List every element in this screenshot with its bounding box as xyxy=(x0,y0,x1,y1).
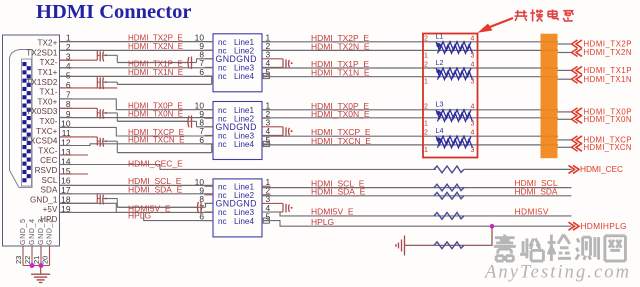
wire HDMI_TXCP bar to off-page xyxy=(558,139,572,141)
svg-text:GND_5: GND_5 xyxy=(20,219,27,245)
wire HDMI_TX1N bar to off-page xyxy=(558,78,572,80)
svg-text:HPLG: HPLG xyxy=(128,210,151,220)
svg-text:HDMI5V: HDMI5V xyxy=(515,206,549,216)
off-page connector HDMI_TX2P xyxy=(572,40,578,48)
wire HDMI_TX2P_E conn pin1 to U1 pin10 xyxy=(60,41,214,43)
annotation text 共模电感 (common-mode choke) xyxy=(517,10,519,16)
svg-text:16: 16 xyxy=(61,175,71,185)
resistor R4 on 5V xyxy=(434,213,464,220)
wire HDMI_TX0P bar to off-page xyxy=(558,111,572,113)
svg-text:20: 20 xyxy=(41,256,50,264)
off-page connector HDMIHPLG xyxy=(569,222,575,230)
svg-text:TX0+: TX0+ xyxy=(38,97,58,106)
svg-text:L2: L2 xyxy=(436,58,444,67)
svg-text:HDMI_TX1N: HDMI_TX1N xyxy=(584,75,632,84)
wire conn pin6 stub xyxy=(60,87,118,89)
svg-text:HDMI_TX2P_E: HDMI_TX2P_E xyxy=(128,33,183,42)
wire HDMI_TX2P bar to off-page xyxy=(558,43,572,45)
wire HDMI_TXCN_E conn pin12 to U2 pin6 xyxy=(60,144,214,146)
svg-text:nc: nc xyxy=(218,72,227,81)
filter IC U1 (TX2/TX1 lines) xyxy=(213,34,262,92)
off-page connector HDMI_TX2N xyxy=(572,49,578,57)
svg-text:GNDGND: GNDGND xyxy=(216,199,257,209)
svg-text:L3: L3 xyxy=(436,100,444,109)
svg-text:3: 3 xyxy=(471,79,475,86)
svg-text:1: 1 xyxy=(424,147,428,154)
wire HDMI_TX2N bar to off-page xyxy=(558,52,572,54)
svg-text:1: 1 xyxy=(424,52,428,59)
svg-text:2: 2 xyxy=(424,62,428,69)
wire HDMI_TX2N_E U-box to choke xyxy=(262,49,558,51)
wire HDMI_TXCP_E conn pin10 jog xyxy=(60,127,214,136)
wire TX2 shield run to U1 GND pin8 xyxy=(117,62,188,64)
svg-text:HDMI_TXCN_E: HDMI_TXCN_E xyxy=(128,136,184,145)
wire HDMI_TX0P_E U-box to choke xyxy=(262,109,558,111)
svg-text:HDMI_TX1P: HDMI_TX1P xyxy=(584,66,632,75)
wire conn pin13 stub xyxy=(60,154,89,156)
wire TX1 shield run xyxy=(117,83,211,85)
svg-text:10: 10 xyxy=(61,118,71,128)
svg-text:HDMI_TX1N_E: HDMI_TX1N_E xyxy=(311,68,370,78)
wire GND rail xyxy=(23,265,50,267)
svg-text:L4: L4 xyxy=(436,126,444,135)
wire conn pin18 stub tie xyxy=(60,202,98,204)
wire HDMI_TX0P_E conn pin7 jog xyxy=(60,99,214,110)
svg-text:2: 2 xyxy=(424,130,428,137)
svg-text:1: 1 xyxy=(424,79,428,86)
off-page connector HDMI_TXCN xyxy=(572,143,578,151)
off-page connector HDMI_TX1N xyxy=(572,75,578,83)
svg-text:HDMI Connector: HDMI Connector xyxy=(36,1,191,23)
capacitor C9 at U3 right pins 3-4 xyxy=(271,202,284,204)
svg-text:TX1+: TX1+ xyxy=(38,68,58,77)
svg-text:TX0-: TX0- xyxy=(40,117,58,126)
svg-text:HDMI_SDA_E: HDMI_SDA_E xyxy=(311,187,366,197)
svg-text:AnyTesting.com: AnyTesting.com xyxy=(483,263,629,283)
svg-text:HDMI_TXCN: HDMI_TXCN xyxy=(584,143,632,152)
svg-text:HDMI_TX2N_E: HDMI_TX2N_E xyxy=(128,42,183,51)
svg-text:3: 3 xyxy=(471,120,475,127)
no-connect square at U2 pin 5 xyxy=(263,141,269,146)
svg-text:GND_1: GND_1 xyxy=(30,195,58,204)
junction dot GND rail 1 xyxy=(30,263,35,268)
svg-text:HDMI_TX0N_E: HDMI_TX0N_E xyxy=(311,109,370,119)
wire HDMI5V U3 to right xyxy=(262,212,572,216)
svg-text:4: 4 xyxy=(471,103,475,110)
svg-text:TX0SD3: TX0SD3 xyxy=(26,107,58,116)
svg-text:3: 3 xyxy=(471,147,475,154)
svg-text:HPLG: HPLG xyxy=(311,217,334,227)
wire HDMI_TX1P bar to off-page xyxy=(558,69,572,71)
wire HDMI_TX0N bar to off-page xyxy=(558,118,572,120)
wire HDMI_SCL U3 to right xyxy=(262,187,572,189)
wire HDMI_TX0N_E conn pin9 to U2 pin9 xyxy=(60,117,214,119)
capacitor C1 (TX2 shield) xyxy=(96,50,98,60)
wire HDMI_CEC_E conn pin14 xyxy=(60,165,437,170)
wire TX0 shield run to U2 GND pin8 xyxy=(117,120,188,122)
svg-text:2: 2 xyxy=(424,103,428,110)
capacitor C7 at U1 right pins 3-4 xyxy=(271,58,284,60)
resistor R5 pulldown xyxy=(434,242,464,249)
watermark text 嘉峪检测网 xyxy=(494,235,626,262)
svg-text:Line4: Line4 xyxy=(234,217,254,226)
svg-text:TXCSD4: TXCSD4 xyxy=(25,137,58,146)
wire HDMI5V_E conn pin18 to U3 pin7 xyxy=(60,203,214,212)
svg-text:11: 11 xyxy=(62,128,71,138)
off-page connector HDMI_CEC xyxy=(569,165,575,173)
capacitor C11 (U3 GND left) xyxy=(117,206,201,208)
wire HDMI_TX2P_E U-box to choke xyxy=(262,41,558,43)
svg-text:4: 4 xyxy=(471,62,475,69)
svg-text:22: 22 xyxy=(23,256,32,264)
svg-text:HDMI5V_E: HDMI5V_E xyxy=(311,207,354,217)
capacitor C4 (TXC shield) xyxy=(96,137,98,146)
wire conn pin3 stub tie xyxy=(60,59,98,61)
capacitor C6 (U2 GND left) xyxy=(117,120,191,122)
svg-text:TX1-: TX1- xyxy=(40,88,58,97)
svg-text:HDMI_TXCN_E: HDMI_TXCN_E xyxy=(311,136,371,146)
svg-text:nc: nc xyxy=(218,140,227,149)
wire HDMI_TX1N_E conn pin5 to U1 pin6 xyxy=(60,75,214,77)
svg-text:HDMI_TX1N_E: HDMI_TX1N_E xyxy=(128,68,183,77)
wire HDMI_SDA_E conn pin17 to U3 pin9 xyxy=(60,193,214,195)
wire HDMI_SCL_E conn pin16 to U3 pin10 xyxy=(60,184,214,186)
svg-text:1: 1 xyxy=(424,120,428,127)
wire 5V shield run to U3 GND pin8 xyxy=(117,206,197,208)
svg-text:SDA: SDA xyxy=(41,186,58,195)
connector J1 pin stubs right side xyxy=(60,41,73,43)
capacitor C10 (GND_1/+5V) xyxy=(96,194,98,204)
resistor R2 on SCL xyxy=(434,184,464,191)
resistor R3 on SDA xyxy=(434,192,464,199)
wire HDMI_TXCN bar to off-page xyxy=(558,146,572,148)
wire conn pin15 stub xyxy=(60,173,89,175)
svg-text:TX2SD1: TX2SD1 xyxy=(26,48,58,57)
svg-text:GNDGND: GNDGND xyxy=(216,54,257,64)
capacitor C8 at U2 right pins 3-4 xyxy=(271,126,284,128)
ground symbol right (rotated) xyxy=(405,244,407,246)
svg-text:TXC+: TXC+ xyxy=(36,127,57,136)
wire TXC shield run xyxy=(117,152,211,154)
svg-text:GND_4: GND_4 xyxy=(29,219,36,245)
svg-text:7: 7 xyxy=(66,90,71,100)
svg-text:HDMI_SDA: HDMI_SDA xyxy=(515,187,558,197)
svg-text:HDMI_TX0N: HDMI_TX0N xyxy=(584,115,632,124)
svg-text:HDMI_CEC_E: HDMI_CEC_E xyxy=(128,159,183,169)
svg-text:CEC: CEC xyxy=(40,156,57,165)
svg-text:GND_3: GND_3 xyxy=(38,219,45,245)
wire HDMI_TX2N_E conn pin2 to U1 pin9 xyxy=(60,49,214,51)
capacitor C3 (TX0 shield) xyxy=(96,108,98,117)
wire CEC to off-page xyxy=(464,168,572,170)
svg-text:Line4: Line4 xyxy=(234,72,254,81)
wire HDMI_TX1P_E U-box to choke xyxy=(262,67,558,69)
off-page connector HDMI_TX1P xyxy=(572,66,578,74)
svg-text:HDMI_TX2N: HDMI_TX2N xyxy=(584,48,632,57)
connector J1 pin checker pattern xyxy=(22,62,26,66)
connector J1 body xyxy=(3,35,60,246)
wire HPLG pulldown branch xyxy=(407,226,493,245)
junction dot GND rail 2 xyxy=(39,263,44,268)
capacitor C5 (U1 GND left) xyxy=(117,62,191,64)
wire HDMI_SDA U3 to right xyxy=(262,195,572,197)
wire conn pin11 stub xyxy=(60,136,98,138)
orange highlight bar xyxy=(541,34,558,159)
svg-text:8: 8 xyxy=(66,99,71,109)
ground symbol bottom xyxy=(40,266,42,275)
svg-text:TX2+: TX2+ xyxy=(38,39,58,48)
svg-text:HDMIHPLG: HDMIHPLG xyxy=(581,221,627,231)
svg-text:Line4: Line4 xyxy=(234,140,254,149)
capacitor C2 (TX1 shield) xyxy=(96,76,98,88)
wire HDMI_TXCN_E U-box to choke xyxy=(262,144,558,146)
off-page connector HDMI_TX0N xyxy=(572,115,578,123)
no-connect square at U1 pin 5 xyxy=(263,73,269,78)
svg-text:SCL: SCL xyxy=(41,176,57,185)
svg-text:4: 4 xyxy=(471,130,475,137)
svg-text:TX1SD2: TX1SD2 xyxy=(26,78,58,87)
annotation arrow to choke box xyxy=(478,24,493,33)
wire HDMI_TXCP_E U-box to choke xyxy=(262,135,558,137)
svg-text:4: 4 xyxy=(471,35,475,42)
svg-text:23: 23 xyxy=(14,256,23,264)
svg-text:nc: nc xyxy=(218,217,227,226)
junction dot on HPLG xyxy=(490,224,495,229)
svg-text:5: 5 xyxy=(66,71,71,81)
svg-text:GNDGND: GNDGND xyxy=(216,122,257,132)
wires GND pins 20-23 stubs xyxy=(22,246,24,266)
resistor R1 on CEC xyxy=(434,166,464,173)
wire HDMI_TX0N_E U-box to choke xyxy=(262,117,558,119)
svg-text:HDMI_CEC: HDMI_CEC xyxy=(580,164,623,174)
svg-text:TX2-: TX2- xyxy=(40,58,58,67)
svg-text:2: 2 xyxy=(424,35,428,42)
svg-text:3: 3 xyxy=(471,52,475,59)
svg-text:GND_2: GND_2 xyxy=(47,219,54,245)
off-page connector HDMI_TX0P xyxy=(572,108,578,116)
filter IC U2 (TX0/TXC lines) xyxy=(213,102,262,160)
wire conn pin8 stub xyxy=(60,107,98,109)
wire HDMI_TX1P_E conn pin4 to U1 pin7 xyxy=(60,67,214,69)
off-page connector HDMI_TXCP xyxy=(572,136,578,144)
svg-text:4: 4 xyxy=(66,61,71,71)
filter IC U3 (SCL/SDA/5V/HPLG lines) xyxy=(213,179,262,237)
svg-text:TXC-: TXC- xyxy=(38,146,57,155)
no-connect square at U3 pin 5 xyxy=(263,218,269,223)
svg-text:HDMI_TX2N_E: HDMI_TX2N_E xyxy=(311,41,370,51)
svg-text:HDMI_SDA_E: HDMI_SDA_E xyxy=(128,185,183,195)
svg-text:HDMI_TX0N_E: HDMI_TX0N_E xyxy=(128,109,183,118)
wire HPLG conn pin19 to U3 pin6 xyxy=(60,212,214,220)
wire HDMI_TX1N_E U-box to choke xyxy=(262,76,558,78)
svg-text:6: 6 xyxy=(66,80,71,90)
red highlight box around chokes xyxy=(423,34,478,158)
svg-text:+5V: +5V xyxy=(43,205,58,214)
svg-text:RSVD: RSVD xyxy=(35,166,58,175)
wire HPLG U3 to off-page xyxy=(262,221,572,227)
